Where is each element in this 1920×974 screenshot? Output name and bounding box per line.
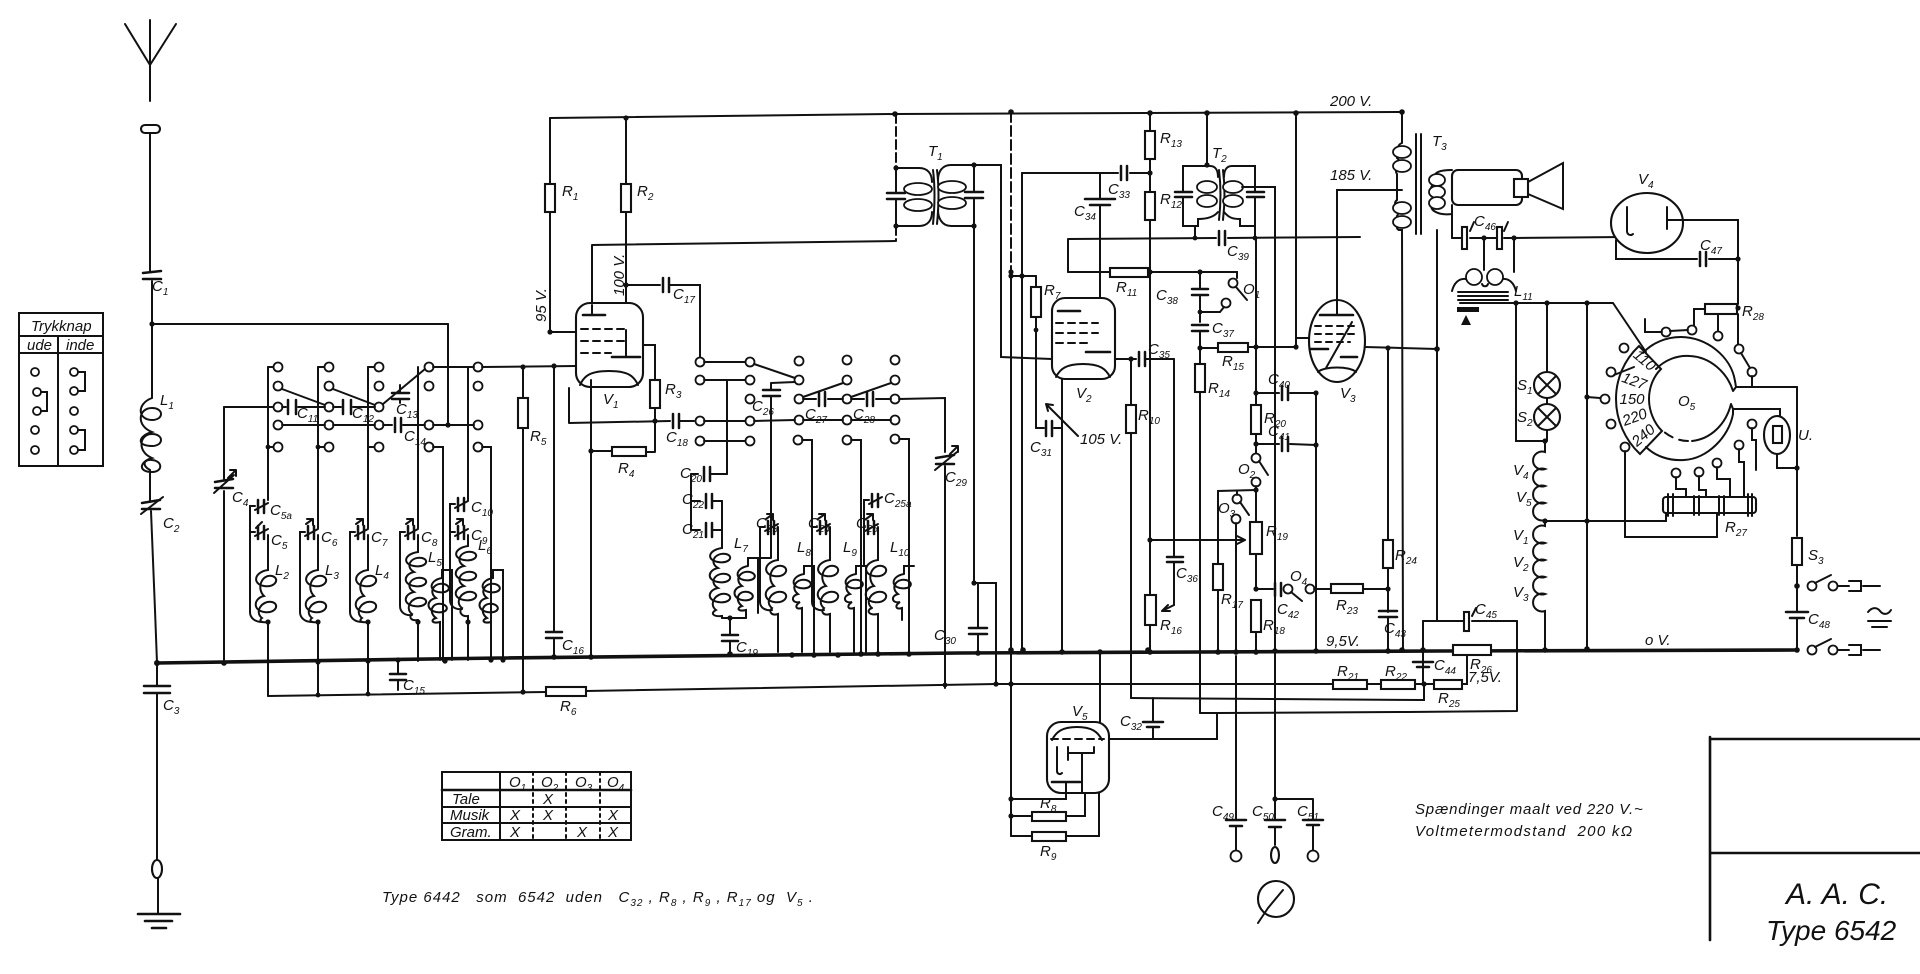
SECTION: left column <box>19 20 448 928</box>
line y713 <box>1200 712 1407 713</box>
capacitor C15 <box>390 674 406 680</box>
capacitor C41 <box>1256 444 1316 445</box>
row4 wire <box>282 424 474 426</box>
svg-text:X: X <box>509 824 521 841</box>
trimmer C10 <box>458 498 464 511</box>
pickup <box>1258 881 1294 917</box>
V2 grid cap bar <box>1058 310 1080 313</box>
switch shaft 5 <box>467 367 469 660</box>
mains switch upper <box>1794 583 1800 589</box>
chassis wire <box>1460 302 1613 304</box>
C9 C10 bracket <box>450 504 462 609</box>
SECTION: bottom right <box>1407 538 1920 946</box>
svg-text:Trykknap: Trykknap <box>31 318 92 335</box>
T2 bottom leads <box>1195 226 1255 238</box>
resistor R7 <box>1035 276 1037 428</box>
V5 cathode wires <box>1099 652 1101 722</box>
resistor R10 <box>1130 359 1132 698</box>
capacitor C12 <box>343 400 351 414</box>
C33 wire corner down <box>1021 173 1023 651</box>
dial scale sector <box>1616 346 1662 454</box>
contact grid row2 <box>274 382 283 391</box>
resistor R2 <box>625 118 627 330</box>
capacitor C42 <box>1256 588 1273 590</box>
pentode V2 <box>1052 298 1115 379</box>
resistor R8 <box>1011 793 1085 816</box>
R20 column <box>1255 238 1257 454</box>
trimmer C25 <box>868 521 874 534</box>
T1 left winding <box>896 168 932 226</box>
capacitor C37 <box>1192 325 1208 331</box>
capacitor C20 <box>704 467 710 481</box>
wire C4 column <box>223 407 225 663</box>
capacitor C26 <box>763 390 780 396</box>
R11 wire <box>1068 272 1237 278</box>
wire L11 node down <box>1516 303 1545 441</box>
contact grid row3 <box>274 403 283 412</box>
T2 left winding <box>1183 166 1218 226</box>
V1 anode <box>612 356 640 359</box>
switch shaft 4 <box>417 367 419 661</box>
R28 contacts <box>1662 328 1671 337</box>
svg-text:7,5V.: 7,5V. <box>1468 669 1502 686</box>
V2 input wire <box>1128 356 1133 361</box>
node R5 return <box>520 689 525 694</box>
capacitor C28 <box>867 392 873 406</box>
svg-text:X: X <box>607 824 619 841</box>
switch shaft 1 <box>267 367 269 696</box>
T1 core gap <box>933 170 939 224</box>
C7 bracket <box>350 532 362 622</box>
resistor R17 <box>1213 564 1223 590</box>
resistor R19 <box>1250 522 1262 554</box>
V1 cathode lead <box>590 380 592 451</box>
anode feedback wire T1 <box>592 241 895 305</box>
resistor R25 <box>1434 655 1467 684</box>
capacitor C31 <box>1046 421 1052 436</box>
SECTION: left bank <box>214 324 576 697</box>
switch O2 <box>1252 454 1261 463</box>
T1 right winding <box>938 165 973 226</box>
SECTION: V1 area <box>157 115 1797 718</box>
trimmer C25a <box>872 494 878 507</box>
V1 top cap <box>583 314 605 317</box>
C16 drop <box>553 366 555 657</box>
contact grid row1 <box>274 363 283 372</box>
wire C2 to bus <box>151 511 157 663</box>
SECTION: V2/V3 area <box>1008 110 1439 713</box>
capacitor C19 <box>722 635 738 641</box>
row3 wire to C29 column <box>899 398 945 452</box>
T2 secondary tap wire <box>1242 187 1275 599</box>
svg-text:200 V.: 200 V. <box>1329 93 1372 110</box>
resistor R15 <box>1200 338 1318 348</box>
T2 tuning caps <box>1175 192 1192 197</box>
capacitor C27 <box>819 392 825 406</box>
capacitor C18 <box>673 414 679 428</box>
lever col1 <box>282 389 325 405</box>
ground <box>138 914 180 928</box>
lever row1 to row2 <box>754 364 795 378</box>
capacitor C14 <box>395 418 401 432</box>
resistor R26 <box>1453 645 1491 655</box>
variable capacitor C4 <box>215 479 233 488</box>
vertical from cap to C30 <box>974 226 996 684</box>
V2 dashes <box>1056 322 1098 324</box>
dial upper stub <box>1736 386 1797 388</box>
svg-text:U.: U. <box>1798 427 1813 444</box>
resistor R5 <box>522 367 524 692</box>
trimmer C9 <box>458 526 464 539</box>
wire C17 to bank <box>669 285 700 362</box>
svg-text:A. A. C.: A. A. C. <box>1784 878 1888 911</box>
row5 hooks <box>268 446 374 448</box>
svg-text:Voltmetermodstand 200 kΩ: Voltmetermodstand 200 kΩ <box>1415 823 1633 840</box>
C29 down <box>944 466 946 688</box>
top supply line <box>550 112 1402 118</box>
contact row2 <box>696 376 705 385</box>
row1 wire <box>704 361 745 363</box>
row2 drop <box>726 380 728 474</box>
variable capacitor C2 <box>142 500 160 509</box>
row4 wire <box>704 420 891 421</box>
row5 hooks down <box>802 439 909 652</box>
svg-text:Gram.: Gram. <box>450 824 492 841</box>
svg-text:9,5V.: 9,5V. <box>1326 633 1360 650</box>
lamp wires <box>1546 303 1548 441</box>
V1 left wires <box>550 331 576 333</box>
capacitor C13 <box>392 393 409 399</box>
T3 left winding <box>1395 112 1403 650</box>
capacitor C36 <box>1167 557 1183 562</box>
resistor R13 <box>1149 113 1151 192</box>
return line with R6 <box>268 684 996 696</box>
antenna connector <box>141 125 160 133</box>
wire junction to right <box>152 323 448 325</box>
contact row4 <box>696 417 705 426</box>
dial lower stub <box>1733 409 1780 417</box>
dial switch top <box>1735 345 1744 354</box>
resistor R21 <box>1333 680 1367 689</box>
svg-text:100 V.: 100 V. <box>611 254 628 296</box>
C39 wire <box>1068 237 1360 272</box>
SECTION: top lines and T1 <box>550 93 1402 687</box>
resistor R1 <box>549 118 551 332</box>
wire y324 corner down <box>447 324 449 425</box>
trimmer C5 <box>258 526 264 539</box>
svg-text:X: X <box>542 807 554 824</box>
capacitor C39 <box>1219 231 1225 245</box>
wire to R17 <box>1218 490 1256 652</box>
capacitor C40 <box>1256 392 1316 394</box>
wire C3 to terminal <box>156 663 158 860</box>
wire T1 secondary top to V2 <box>974 165 1052 359</box>
V2 anode bar <box>1086 351 1110 354</box>
switch shaft 2 <box>317 367 319 695</box>
wire to ground <box>157 878 159 913</box>
svg-text:Spændinger maalt ved 220 V.~: Spændinger maalt ved 220 V.~ <box>1415 801 1644 818</box>
row3 wire C27 <box>803 398 843 400</box>
resistor R16 <box>1145 595 1156 625</box>
dial outer upper arc <box>1643 337 1735 381</box>
dial lower arc inner <box>1692 404 1733 441</box>
T3 right winding <box>1430 170 1452 238</box>
vertical 1587 <box>1586 303 1588 649</box>
wire R28 down <box>1737 259 1739 345</box>
200V drop to V3 grid <box>1295 113 1297 347</box>
trimmer C5a <box>258 500 264 513</box>
resistor R9 <box>1011 793 1099 836</box>
svg-text:inde: inde <box>66 337 94 354</box>
trimmer C7 <box>358 526 364 539</box>
capacitor C17 <box>663 278 669 292</box>
resistor R4 <box>591 451 655 452</box>
SECTION: tables and texts <box>382 772 1644 909</box>
R13 column node <box>1147 110 1153 116</box>
tetrode V3 <box>1309 300 1365 382</box>
capacitor C21 <box>706 523 712 537</box>
C8 bracket <box>400 532 412 615</box>
contact grid row4 <box>274 421 283 430</box>
lever col3 to col4 row1 <box>383 369 425 404</box>
T2 core gap <box>1219 170 1225 220</box>
O-table <box>442 772 631 840</box>
Trykknap table <box>19 313 103 466</box>
wire antenna to C1 <box>149 133 151 271</box>
terminal oval <box>152 860 162 878</box>
svg-text:X: X <box>542 791 554 808</box>
wire C4 feed <box>224 406 273 408</box>
contact levers <box>1614 367 1634 375</box>
resistor R22 <box>1381 680 1415 689</box>
bus dots mid <box>789 652 795 658</box>
node 100V <box>623 282 628 287</box>
svg-text:185 V.: 185 V. <box>1330 167 1372 184</box>
trimmer C8 <box>408 526 414 539</box>
R7 feed wire <box>1011 275 1036 277</box>
resistor R24 <box>1387 348 1389 651</box>
capacitor C11 <box>288 400 296 414</box>
AC symbol <box>1868 608 1891 627</box>
SECTION: right top <box>1393 109 1764 650</box>
node bus left <box>154 660 160 666</box>
svg-text:Type 6542: Type 6542 <box>1766 915 1897 946</box>
T1 primary cap <box>887 193 905 199</box>
wire 100V to C17 <box>626 284 660 286</box>
V5 grid wire <box>1109 713 1217 739</box>
contact row1 <box>696 358 705 367</box>
heater return line <box>996 683 1381 685</box>
T1 left leads <box>895 114 897 241</box>
dial inner dashed arc <box>1663 431 1688 441</box>
ude contacts <box>31 368 39 376</box>
C18 wire <box>569 388 670 423</box>
switch O3 <box>1233 495 1242 504</box>
L11 core bar <box>1457 307 1479 312</box>
SECTION: dial <box>1513 303 1813 653</box>
resistor R3 <box>643 345 655 451</box>
node at y324 <box>149 321 154 326</box>
O2 to R19 <box>1255 486 1257 522</box>
wire C1 to junction <box>151 281 153 398</box>
C33 wire <box>1022 172 1150 174</box>
capacitor C34 <box>1085 199 1115 205</box>
lever row3 to row2 C28 <box>851 383 891 397</box>
triode V1 <box>576 303 643 387</box>
row3 wire <box>282 406 375 408</box>
svg-text:X: X <box>576 824 588 841</box>
C6 bracket <box>300 532 312 622</box>
resistor R6 <box>546 687 586 696</box>
row3 wire C28 <box>851 398 891 400</box>
vertical to bus at 591 <box>590 451 592 657</box>
trimmer C23 <box>768 521 774 534</box>
svg-text:Musik: Musik <box>450 807 491 824</box>
capacitor C22 <box>706 494 712 508</box>
svg-text:o V.: o V. <box>1645 632 1671 649</box>
R27 taps <box>1672 469 1681 478</box>
capacitor C30 <box>969 628 987 634</box>
resistor R12 <box>1149 220 1151 272</box>
row1 wire to V1 <box>433 366 576 367</box>
dial left contacts <box>1620 344 1629 353</box>
line y698 <box>1131 684 1424 700</box>
dial lower arc outer <box>1646 414 1733 460</box>
node T1 top <box>892 111 898 117</box>
inde contacts <box>70 368 78 376</box>
capacitor C33 <box>1121 166 1127 180</box>
SECTION: middle bank <box>315 356 967 698</box>
T3 core <box>1416 134 1421 234</box>
switch O1 <box>1229 279 1238 288</box>
V1 grid dashes <box>581 328 625 330</box>
mains switch lower <box>1794 647 1800 653</box>
T2 right winding <box>1224 166 1255 226</box>
resistor R14 <box>1199 348 1201 713</box>
capacitor C3 <box>144 686 170 693</box>
T3 right lower winding <box>1436 230 1438 621</box>
main bus <box>157 650 1797 663</box>
row5 wire <box>704 440 745 442</box>
contact row5 <box>696 437 705 446</box>
bus dots left of V5 <box>1020 647 1026 653</box>
diagonal to dial <box>1613 303 1646 352</box>
resistor R18 <box>1251 600 1261 632</box>
capacitor C16 <box>546 632 562 638</box>
SECTION: bottom middle <box>996 599 1434 923</box>
speaker <box>1452 170 1522 205</box>
antenna <box>125 20 176 101</box>
L11 core <box>1458 292 1508 300</box>
contact row3 <box>746 395 755 404</box>
capacitor C1 <box>143 271 161 279</box>
R12 column down <box>1150 272 1245 585</box>
svg-text:ude: ude <box>27 337 52 354</box>
lever row3 to row2 C27 <box>803 383 843 397</box>
node R2 top <box>623 115 628 120</box>
T1 secondary cap <box>965 192 983 198</box>
capacitor C43 <box>1379 611 1397 617</box>
V3 right wire <box>1365 347 1437 349</box>
resistor R23 <box>1314 588 1388 590</box>
trimmer C24 <box>820 521 826 534</box>
C40 C41 right column <box>1315 393 1317 651</box>
svg-text:Tale: Tale <box>452 791 480 808</box>
svg-text:X: X <box>509 807 521 824</box>
feedback box edges <box>1407 621 1517 712</box>
C5 bracket <box>250 506 262 622</box>
svg-text:95 V.: 95 V. <box>533 288 550 322</box>
lever col2 <box>333 389 375 405</box>
svg-text:X: X <box>607 807 619 824</box>
svg-text:105 V.: 105 V. <box>1080 431 1122 448</box>
variable capacitor C29 <box>936 455 954 464</box>
capacitor C35 <box>1139 352 1145 366</box>
V5 left lead <box>1011 793 1066 799</box>
row2 wire <box>704 379 745 381</box>
title block <box>1710 737 1920 940</box>
contact grid row5 <box>274 443 283 452</box>
dial inner upper arc <box>1656 356 1736 391</box>
switch O4 <box>1284 585 1293 594</box>
right column <box>1796 387 1798 536</box>
trimmer C6 <box>308 526 314 539</box>
heater tap wire <box>1545 513 1666 521</box>
capacitor C38 <box>1192 289 1208 295</box>
vertical 200V to R7 <box>1010 112 1012 272</box>
switch shaft 3 <box>367 367 369 694</box>
row1 hooks <box>268 366 374 368</box>
